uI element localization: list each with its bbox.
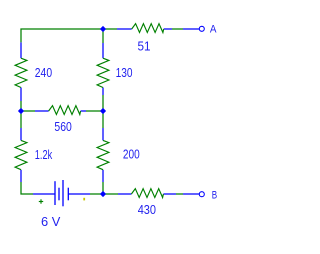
svg-text:A: A bbox=[210, 23, 217, 35]
svg-text:430: 430 bbox=[138, 202, 156, 217]
svg-text:1.2k: 1.2k bbox=[35, 147, 53, 162]
svg-text:130: 130 bbox=[116, 65, 133, 80]
svg-text:51: 51 bbox=[138, 39, 151, 54]
svg-text:560: 560 bbox=[54, 119, 71, 134]
svg-text:200: 200 bbox=[123, 147, 140, 162]
svg-text:B: B bbox=[212, 189, 217, 201]
svg-text:6 V: 6 V bbox=[41, 214, 61, 229]
svg-text:240: 240 bbox=[35, 65, 52, 80]
